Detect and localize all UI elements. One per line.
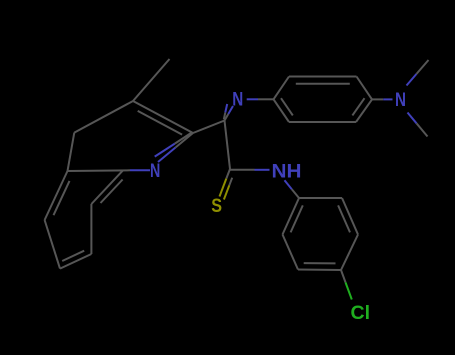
bond N2-phenyl	[247, 98, 274, 100]
bond C2-C3 inner line	[138, 111, 182, 135]
chlorophenyl edge Q4-Q5 (double)	[298, 269, 341, 272]
atom label N3 (dimethylamino N)	[395, 90, 406, 111]
chlorophenyl edge Q4-Q5 inner line	[304, 262, 336, 264]
svg-text:N: N	[150, 161, 160, 182]
bond C5-Bx inner line	[54, 181, 70, 215]
phenyl edge BL-L inner line	[281, 98, 293, 115]
bond phenyl-N3	[372, 98, 393, 100]
chlorophenyl edge Q2-Q3 (double)	[342, 198, 358, 235]
atom label N2 (imine N)	[232, 89, 243, 110]
bond N3-methyl lower	[408, 113, 428, 137]
svg-text:Cl: Cl	[351, 303, 371, 324]
chlorophenyl edge Q6-Q1 (double)	[283, 198, 300, 235]
bond N3-methyl upper	[407, 60, 429, 86]
methyl stub on C3	[133, 59, 170, 101]
bond B3-B4 (benzo)	[60, 254, 91, 269]
phenyl edge TL-TR (double)	[289, 76, 357, 78]
bond C5-C8a-N1 horizontal (fused edge)	[68, 169, 151, 172]
chlorophenyl edge Q1-Q2	[299, 197, 342, 199]
bond C4-C5	[68, 133, 75, 171]
bond B3-B4 inner line	[62, 251, 84, 261]
chlorophenyl edge Q2-Q3 inner line	[338, 205, 350, 232]
bond central C-thioamide C	[225, 121, 231, 170]
atom label Cl (chloro)	[351, 303, 371, 324]
chlorophenyl edge Q3-Q4	[341, 235, 358, 271]
bond C2-central C	[193, 121, 225, 134]
bond C6-C8a outer line	[101, 180, 123, 204]
atom label N1 (quinoline N)	[150, 161, 160, 182]
bond B4-C6 (benzo)	[90, 204, 92, 254]
bond central C=N2 (imine, double)	[225, 106, 234, 121]
phenyl edge R-BR (double)	[356, 99, 372, 122]
chlorophenyl edge Q6-Q1 inner line	[291, 205, 303, 232]
phenyl edge BR-BL	[289, 121, 356, 123]
bond N1=C2 (imine of azine ring, double)	[158, 133, 193, 162]
svg-text:NH: NH	[272, 161, 302, 182]
bond Bx-B3 (benzo)	[45, 220, 60, 269]
atom label NH (thioamide)	[272, 161, 302, 182]
phenyl edge TL-TR inner line	[296, 83, 350, 85]
bond C-Cl	[341, 270, 352, 300]
bond thioamide C=S (double)	[220, 169, 231, 197]
chlorophenyl edge Q5-Q6	[283, 235, 299, 270]
bond C2-C3	[133, 101, 193, 133]
phenyl edge TR-R	[357, 77, 373, 100]
bond C3-C4	[74, 101, 133, 133]
bond central C=N2 inner line	[224, 104, 227, 119]
bond NH-chlorophenyl ipso	[285, 180, 300, 198]
phenyl edge BL-L (double)	[274, 99, 290, 122]
bond N1=C2 inner line	[155, 133, 192, 157]
atom label S (thione)	[211, 196, 222, 217]
bond C6-C8a (benzo)	[91, 170, 123, 204]
bond C5-Bx (benzo)	[45, 171, 68, 220]
bond thioamide C=S second line	[224, 178, 232, 200]
svg-text:N: N	[395, 90, 406, 111]
bond thioamide C-NH	[230, 169, 270, 171]
phenyl edge R-BR inner line	[352, 98, 364, 115]
svg-text:N: N	[232, 89, 243, 110]
phenyl edge L-TL	[274, 77, 290, 100]
svg-text:S: S	[211, 196, 222, 217]
